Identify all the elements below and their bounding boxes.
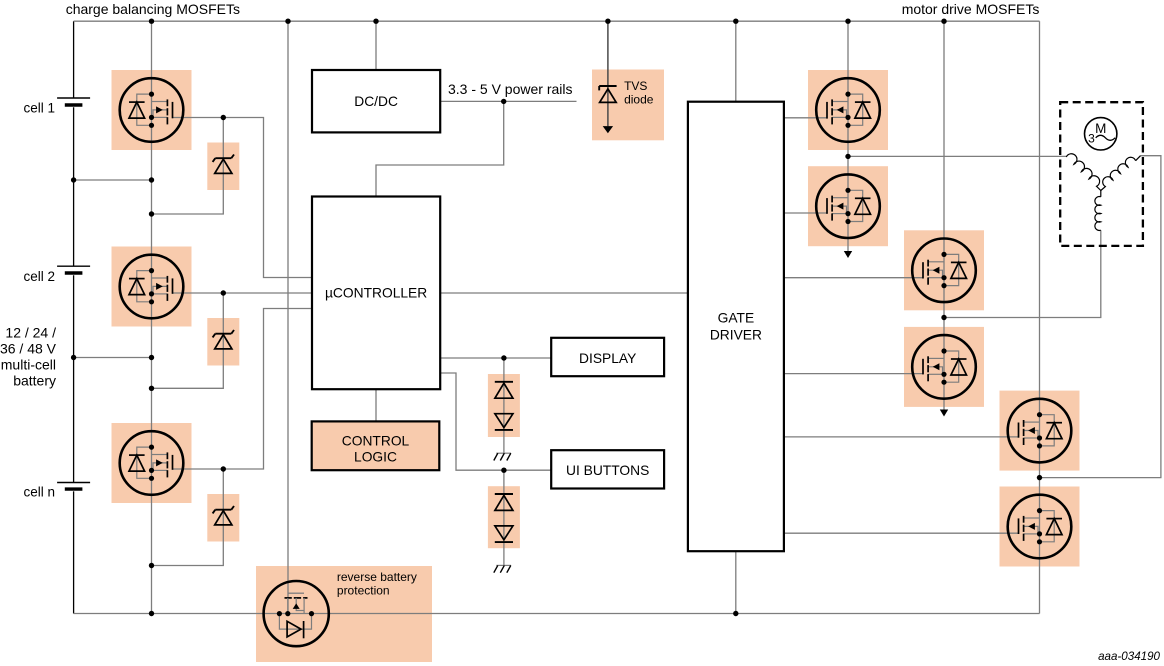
svg-text:motor drive MOSFETs: motor drive MOSFETs [902, 1, 1040, 17]
svg-text:battery: battery [13, 373, 56, 389]
svg-text:cell 2: cell 2 [23, 269, 55, 284]
svg-text:protection: protection [337, 584, 390, 598]
svg-text:3: 3 [1088, 132, 1095, 146]
svg-text:cell 1: cell 1 [23, 101, 55, 116]
svg-text:UI BUTTONS: UI BUTTONS [566, 463, 649, 478]
svg-text:multi-cell: multi-cell [1, 357, 56, 373]
svg-text:LOGIC: LOGIC [354, 450, 397, 465]
svg-text:reverse battery: reverse battery [337, 570, 417, 584]
svg-text:diode: diode [624, 93, 654, 107]
svg-text:cell n: cell n [23, 484, 55, 499]
svg-text:DC/DC: DC/DC [354, 94, 398, 109]
svg-text:charge balancing MOSFETs: charge balancing MOSFETs [66, 1, 240, 17]
svg-text:12 / 24 /: 12 / 24 / [5, 325, 56, 341]
svg-text:GATE: GATE [718, 311, 755, 326]
svg-text:DISPLAY: DISPLAY [579, 351, 636, 366]
svg-text:CONTROL: CONTROL [342, 434, 410, 449]
svg-text:36 / 48 V: 36 / 48 V [0, 341, 57, 357]
svg-text:µCONTROLLER: µCONTROLLER [325, 285, 427, 300]
svg-text:aaa-034190: aaa-034190 [1098, 650, 1160, 663]
svg-text:DRIVER: DRIVER [710, 327, 762, 342]
svg-text:TVS: TVS [624, 79, 647, 93]
svg-text:3.3 - 5 V power rails: 3.3 - 5 V power rails [448, 81, 573, 97]
svg-text:M: M [1095, 121, 1106, 136]
